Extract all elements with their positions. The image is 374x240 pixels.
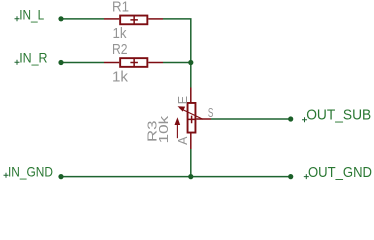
- svg-text:A: A: [176, 136, 190, 145]
- svg-text:OUT_GND: OUT_GND: [308, 165, 372, 181]
- svg-text:1k: 1k: [113, 26, 128, 42]
- svg-text:1k: 1k: [112, 70, 129, 86]
- svg-text:OUT_SUB: OUT_SUB: [306, 107, 371, 123]
- svg-text:R2: R2: [112, 42, 128, 58]
- svg-text:IN_L: IN_L: [19, 6, 44, 22]
- svg-text:R1: R1: [112, 0, 129, 15]
- svg-text:E: E: [176, 96, 190, 104]
- svg-text:IN_R: IN_R: [19, 49, 47, 65]
- svg-text:10k: 10k: [157, 115, 171, 144]
- svg-text:S: S: [208, 105, 214, 120]
- svg-text:IN_GND: IN_GND: [8, 163, 53, 179]
